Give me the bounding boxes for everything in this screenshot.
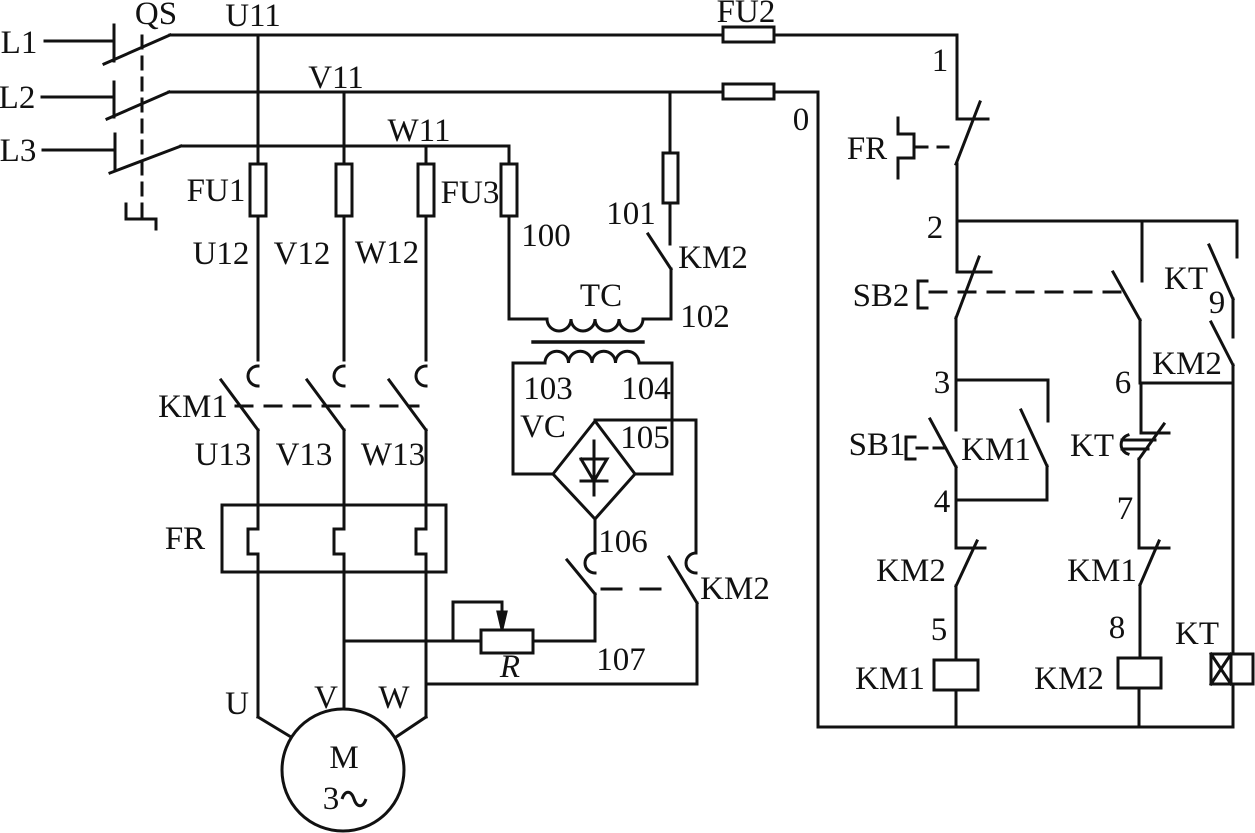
svg-text:104: 104 xyxy=(621,371,671,407)
svg-text:FU2: FU2 xyxy=(717,0,776,30)
svg-text:4: 4 xyxy=(934,484,951,520)
svg-text:VC: VC xyxy=(520,409,566,445)
svg-text:M: M xyxy=(329,740,358,776)
svg-text:105: 105 xyxy=(620,420,670,456)
svg-text:8: 8 xyxy=(1109,610,1126,646)
svg-text:KM1: KM1 xyxy=(855,661,925,697)
svg-text:SB1: SB1 xyxy=(849,427,906,463)
svg-text:R: R xyxy=(499,649,520,685)
svg-text:FU3: FU3 xyxy=(441,175,500,211)
svg-text:1: 1 xyxy=(932,43,949,79)
svg-text:V12: V12 xyxy=(274,236,331,272)
svg-text:106: 106 xyxy=(598,524,648,560)
svg-text:102: 102 xyxy=(680,299,730,335)
svg-text:QS: QS xyxy=(135,0,177,32)
svg-text:L1: L1 xyxy=(1,25,38,61)
svg-text:TC: TC xyxy=(580,278,622,314)
svg-text:107: 107 xyxy=(596,642,646,678)
svg-text:5: 5 xyxy=(931,612,948,648)
svg-text:100: 100 xyxy=(521,218,571,254)
svg-text:9: 9 xyxy=(1209,285,1226,321)
svg-text:FR: FR xyxy=(847,131,887,167)
svg-text:W11: W11 xyxy=(388,113,451,149)
svg-text:L2: L2 xyxy=(0,80,35,116)
svg-text:KM2: KM2 xyxy=(876,553,946,589)
svg-text:KT: KT xyxy=(1175,616,1219,652)
svg-text:SB2: SB2 xyxy=(853,278,910,314)
svg-text:L3: L3 xyxy=(0,133,36,169)
svg-text:W12: W12 xyxy=(355,235,419,271)
svg-text:V13: V13 xyxy=(276,437,333,473)
svg-text:V11: V11 xyxy=(308,60,364,96)
svg-text:U13: U13 xyxy=(195,437,252,473)
svg-text:6: 6 xyxy=(1115,365,1132,401)
svg-text:3: 3 xyxy=(323,781,340,817)
svg-text:U: U xyxy=(225,686,249,722)
svg-text:KT: KT xyxy=(1070,428,1114,464)
svg-text:KM1: KM1 xyxy=(1067,553,1137,589)
svg-text:KM1: KM1 xyxy=(158,389,228,425)
svg-text:W: W xyxy=(378,680,410,716)
svg-text:KM2: KM2 xyxy=(1152,346,1222,382)
svg-text:KM2: KM2 xyxy=(678,240,748,276)
svg-text:0: 0 xyxy=(793,102,810,138)
svg-text:2: 2 xyxy=(927,210,944,246)
svg-text:103: 103 xyxy=(523,371,573,407)
svg-text:FU1: FU1 xyxy=(187,173,246,209)
svg-text:KM1: KM1 xyxy=(961,432,1031,468)
svg-text:W13: W13 xyxy=(361,437,425,473)
svg-text:U11: U11 xyxy=(225,0,281,34)
svg-text:KM2: KM2 xyxy=(1034,661,1104,697)
svg-text:KT: KT xyxy=(1164,261,1208,297)
svg-text:3: 3 xyxy=(934,365,951,401)
svg-text:U12: U12 xyxy=(193,236,250,272)
svg-text:7: 7 xyxy=(1117,491,1134,527)
svg-text:V: V xyxy=(314,680,338,716)
svg-text:101: 101 xyxy=(606,196,656,232)
svg-text:FR: FR xyxy=(165,521,205,557)
svg-text:KM2: KM2 xyxy=(700,571,770,607)
